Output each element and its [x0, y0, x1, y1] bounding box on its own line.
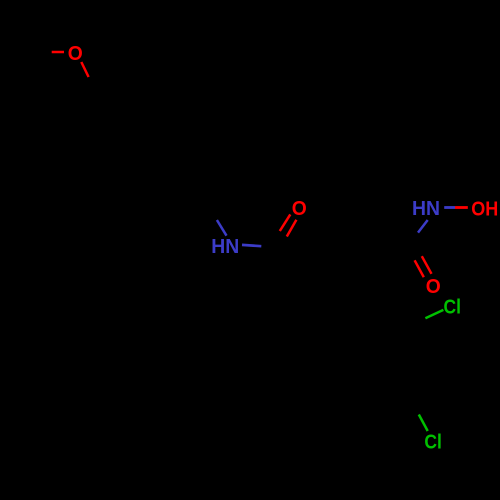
svg-text:OH: OH — [471, 199, 498, 221]
svg-text:O: O — [68, 43, 83, 65]
svg-text:HN: HN — [412, 198, 440, 220]
svg-text:O: O — [426, 276, 441, 298]
svg-text:HN: HN — [211, 236, 239, 258]
svg-text:Cl: Cl — [424, 432, 442, 454]
svg-text:O: O — [292, 198, 307, 220]
svg-text:Cl: Cl — [444, 297, 462, 319]
